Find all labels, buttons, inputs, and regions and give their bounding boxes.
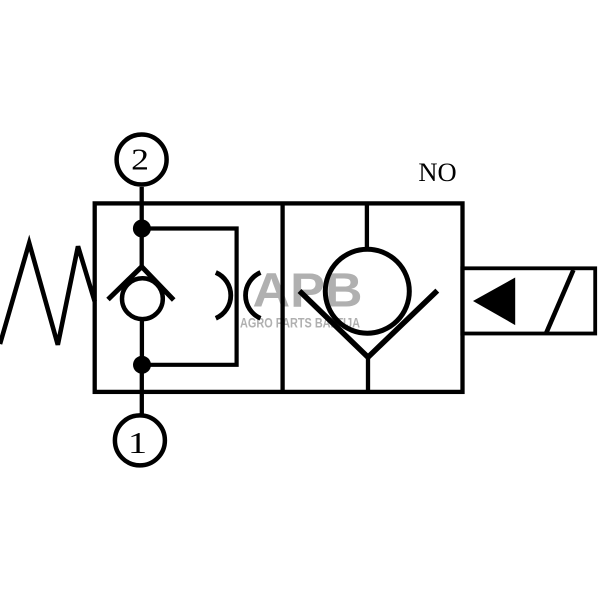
wire right square top — [365, 203, 369, 247]
wire upper flow line — [140, 203, 144, 267]
poppet seat V — [300, 291, 438, 358]
wire right square bottom — [366, 357, 370, 392]
port circle 2 — [117, 135, 167, 185]
check valve seat chevron — [108, 267, 174, 300]
wire port 2 to valve body — [140, 187, 144, 204]
solenoid arrow triangle — [473, 278, 515, 326]
check valve ball — [122, 278, 163, 319]
svg-text:APB: APB — [253, 265, 363, 318]
junction node top — [133, 220, 151, 238]
solenoid diagonal stroke — [546, 270, 573, 333]
wire to port 1 — [140, 365, 144, 414]
poppet ball — [325, 249, 409, 333]
main valve body box — [95, 203, 463, 392]
spring — [0, 243, 95, 345]
port circle 1 — [115, 415, 165, 465]
junction node bottom — [133, 356, 151, 374]
bypass loop — [142, 229, 237, 365]
svg-text:NO: NO — [418, 157, 456, 187]
wire ball to lower node — [140, 318, 144, 365]
svg-text:2: 2 — [131, 143, 149, 177]
solenoid box — [462, 268, 595, 333]
svg-text:1: 1 — [128, 426, 147, 460]
orifice left arc — [216, 273, 231, 319]
orifice right arc — [246, 273, 261, 319]
position divider — [280, 203, 284, 392]
